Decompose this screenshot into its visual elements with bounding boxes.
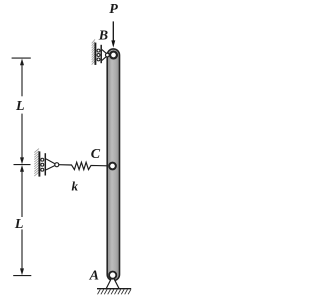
- bar AB (column): [107, 49, 119, 281]
- svg-text:k: k: [72, 179, 79, 194]
- top wall hatching: [92, 39, 95, 64]
- dimension line upper L: [21, 65, 23, 158]
- dim arrow up (mid lower): [20, 165, 24, 172]
- dimension tick bottom: [13, 275, 31, 277]
- pin C: [109, 163, 116, 170]
- spring k: [59, 162, 108, 169]
- middle wall hatching: [34, 149, 39, 177]
- top wall line: [94, 43, 96, 65]
- pin A: [109, 272, 116, 279]
- dimension tick middle: [14, 164, 31, 166]
- dim arrow down (mid upper): [20, 157, 24, 164]
- svg-text:C: C: [91, 147, 101, 162]
- middle bracket apex circle: [55, 163, 59, 167]
- top bracket plate: [100, 45, 102, 63]
- dim arrow down (bottom): [20, 268, 24, 275]
- svg-text:L: L: [14, 217, 24, 232]
- svg-text:P: P: [109, 2, 118, 17]
- middle bracket plate: [44, 153, 46, 175]
- ground hatching: [98, 289, 131, 294]
- svg-text:A: A: [89, 269, 99, 284]
- force P arrow: [112, 21, 114, 41]
- top rollers: [97, 49, 100, 61]
- dimension tick top: [12, 57, 31, 59]
- middle bracket triangle: [46, 159, 55, 170]
- ground line: [97, 288, 131, 290]
- pin B: [110, 52, 117, 59]
- svg-text:B: B: [98, 29, 108, 44]
- top bracket apex circle: [106, 53, 110, 57]
- middle rollers: [41, 158, 44, 171]
- middle wall line: [38, 151, 40, 176]
- top bracket triangle: [102, 50, 107, 61]
- support triangle at A: [106, 276, 119, 289]
- svg-text:L: L: [15, 99, 25, 114]
- dim arrow up (top): [20, 59, 24, 66]
- dimension line lower L: [21, 171, 23, 269]
